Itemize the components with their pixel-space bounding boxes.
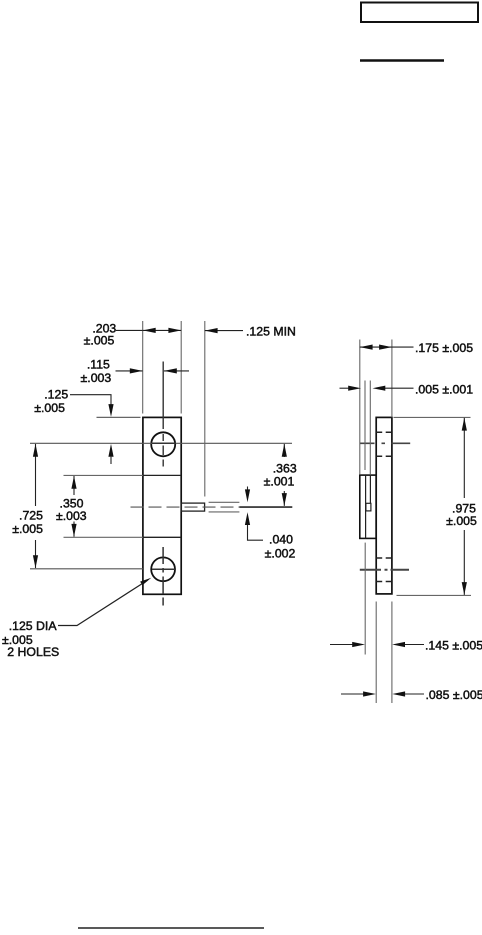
horizontal extension line through bottom hole — [30, 568, 143, 570]
svg-text:±.003: ±.003 — [56, 509, 87, 523]
svg-text:±.005: ±.005 — [446, 514, 477, 528]
side extension lead right (.005) — [369, 381, 371, 475]
horizontal centerline through top hole — [30, 442, 292, 444]
title block box top right — [361, 3, 478, 23]
leader .125 DIA 2 HOLES — [58, 580, 148, 625]
bottom hole horizontal crosshair dash — [152, 568, 176, 570]
lead bottom extension (.040) — [209, 511, 240, 513]
lead centerline solid extension right — [239, 506, 292, 508]
dimension .040 top arrow — [247, 487, 249, 493]
dimension .175 line and arrows — [360, 346, 392, 348]
dimension .350 line and arrows — [73, 476, 75, 495]
top hole vertical centerline — [162, 362, 164, 467]
dimension .725 line and arrows — [35, 444, 37, 506]
lead (front view) — [181, 503, 204, 511]
top edge extension line (.125) — [97, 416, 141, 418]
svg-text:±.005: ±.005 — [34, 401, 65, 415]
extension line left edge (.203) — [142, 321, 144, 414]
lead centerline dashes — [131, 506, 240, 508]
svg-text:.725: .725 — [19, 509, 43, 523]
side view lead cross-section — [366, 503, 371, 511]
side extension flange left down (.085) — [375, 602, 377, 704]
top hole horizontal crosshair dash — [152, 442, 176, 444]
bottom hole — [151, 557, 175, 581]
svg-text:.125 MIN: .125 MIN — [246, 325, 296, 339]
side extension boss left up (.175) — [359, 340, 361, 475]
svg-text:.145 ±.005: .145 ±.005 — [425, 639, 482, 653]
dimension .203 line and arrows — [116, 329, 143, 331]
side extension flange right down (.085) — [391, 602, 393, 704]
dimension .145 arrows — [330, 644, 354, 646]
side view boss outline — [360, 475, 376, 538]
side view lead edge line — [369, 475, 371, 503]
svg-text:.085 ±.005: .085 ±.005 — [426, 688, 482, 702]
side view step line — [365, 475, 367, 538]
extension line right edge (.203) — [180, 321, 182, 414]
side extension step down (.145) — [364, 543, 366, 655]
dimension .975 line and arrows — [463, 418, 465, 498]
front view lower section line — [143, 536, 181, 538]
side extension top edge (.975) — [394, 416, 471, 418]
svg-text:.125 DIA: .125 DIA — [9, 619, 58, 633]
side extension flange right up (.175) — [391, 340, 393, 418]
svg-text:±.005: ±.005 — [84, 333, 115, 347]
dimension .125 MIN arrow — [205, 330, 243, 332]
hidden line top hole upper — [376, 431, 392, 433]
svg-text:.125: .125 — [44, 387, 68, 401]
header underline — [360, 59, 444, 62]
dimension .040 bottom arrow and elbow — [248, 524, 264, 541]
svg-text:2 HOLES: 2 HOLES — [7, 645, 59, 659]
dimension .005 arrows — [340, 387, 351, 389]
bottom hole vertical centerline — [162, 547, 164, 606]
svg-text:.040: .040 — [269, 533, 293, 547]
dimension .125 leader and down arrow — [70, 395, 111, 406]
lead top extension (.040) — [209, 501, 240, 503]
svg-text:±.003: ±.003 — [81, 371, 112, 385]
section line extension lower (.350) — [64, 536, 143, 538]
svg-text:±.005: ±.005 — [12, 522, 43, 536]
hidden line bottom hole lower — [376, 581, 392, 583]
dimension .125 up arrow — [110, 457, 112, 464]
section line extension upper (.350) — [64, 474, 143, 476]
svg-text:±.002: ±.002 — [265, 547, 296, 561]
front view upper section line — [143, 474, 181, 476]
top hole — [151, 432, 175, 456]
dimension .363 arrows — [283, 444, 285, 457]
svg-text:.175 ±.005: .175 ±.005 — [415, 341, 473, 355]
side extension lead left (.005) — [364, 381, 366, 471]
front view body outline — [143, 417, 181, 594]
svg-text:±.001: ±.001 — [264, 475, 295, 489]
extension line lead tip (.125 MIN) — [204, 321, 206, 497]
svg-text:.115: .115 — [87, 358, 110, 372]
side extension bottom edge (.975) — [397, 594, 472, 596]
side view flange outline — [376, 417, 392, 594]
hidden line top hole lower — [376, 455, 392, 457]
dimension .115 arrows — [116, 370, 143, 372]
hidden line bottom hole upper — [376, 557, 392, 559]
svg-text:.005 ±.001: .005 ±.001 — [415, 382, 473, 396]
side view bottom hole centerline — [360, 569, 409, 571]
footer underline — [78, 927, 264, 929]
dimension .085 arrows — [341, 693, 365, 695]
side view top hole centerline — [360, 442, 411, 444]
